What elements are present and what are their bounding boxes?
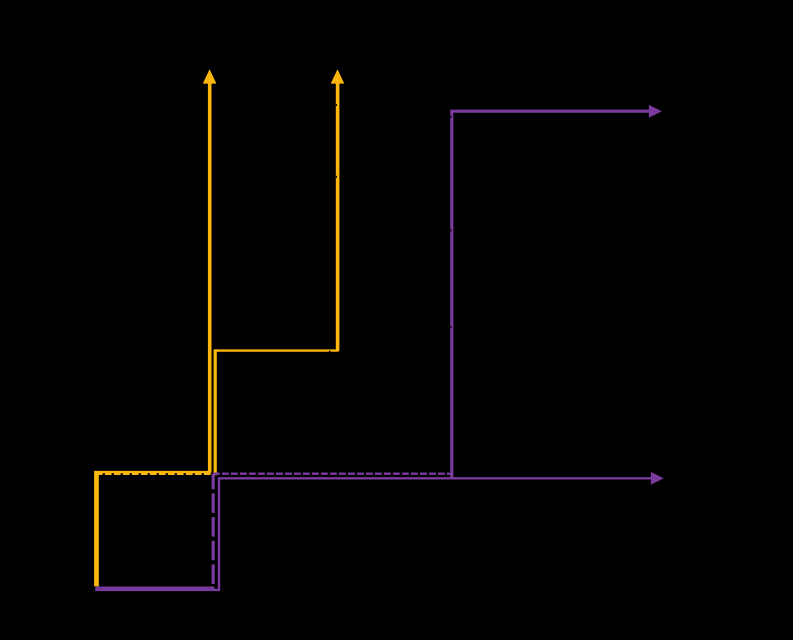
orange level y=350.6 [214, 349, 339, 351]
orange delta arrow head at x=337.6 [331, 69, 345, 83]
purple right arrow head at y=478.3 [651, 472, 664, 485]
dash notches on orange shaft x=337.6 [336, 104, 337, 106]
purple companion bottom level (overlap partner) [95, 587, 214, 589]
purple solid step curve: bottom level, jump at x=219, long level to right arrow [95, 478, 651, 590]
orange delta arrow shaft at x=337.6 [336, 83, 340, 352]
dash notches on riser x=451.8 [450, 116, 451, 118]
orange solid step curve: left vertical + first level [95, 472, 210, 586]
orange delta arrow head at x=209.7 [203, 69, 217, 83]
purple upper branch: riser x=451.8 + top level y=111.2 [452, 111, 650, 478]
purple right arrow head at y=111.4 [649, 105, 662, 118]
purple dashed level y=473.7 [213, 473, 451, 475]
purple dashed riser x=213.2 [212, 474, 215, 589]
orange companion left vertical (overlap partner) [96, 474, 98, 586]
orange delta arrow shaft at x=209.7 [208, 83, 212, 473]
dash notch on orange level [329, 351, 331, 352]
orange dashed level y=474.4 [96, 473, 216, 475]
orange riser x=215.2 [214, 351, 217, 476]
